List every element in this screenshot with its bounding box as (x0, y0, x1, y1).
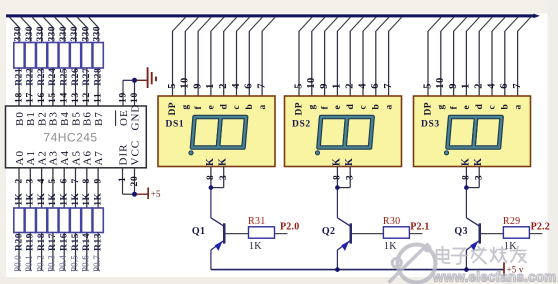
svg-text:K: K (460, 158, 471, 166)
resistor R31 1K (248, 216, 275, 252)
svg-text:P0.3: P0.3 (47, 255, 57, 272)
wire: bus stub to R28 (89, 17, 99, 43)
svg-text:DS3: DS3 (421, 120, 440, 130)
wire: bus to DS2 pin 9 (f) (319, 17, 338, 96)
svg-text:K: K (331, 158, 342, 166)
svg-text:K: K (344, 158, 355, 166)
svg-text:1: 1 (332, 83, 343, 89)
resistor R29 1K (503, 216, 530, 252)
wire+net P0.2 (35, 233, 45, 273)
wire: R26 to U1 pin 13 (71, 68, 81, 107)
wire: collector of Q3 (465, 188, 467, 218)
svg-text:DIR: DIR (117, 144, 129, 166)
svg-text:c: c (232, 105, 242, 110)
wire: bus to DS3 pin 9 (f) (448, 17, 467, 96)
svg-text:b: b (501, 104, 511, 110)
svg-text:11: 11 (93, 92, 103, 103)
svg-text:g: g (181, 104, 191, 109)
svg-text:1K: 1K (26, 193, 36, 206)
7-segment display DS3 (414, 96, 531, 167)
svg-text:18: 18 (14, 92, 24, 103)
wire: U1 pin 20 (VCC) down (130, 168, 140, 194)
wire: R28 to U1 pin 11 (93, 68, 103, 107)
node: Q3 emitter on rail (464, 267, 469, 272)
svg-text:e: e (462, 105, 472, 110)
wire: bus to DS3 pin 7 (a) (512, 17, 531, 96)
wire: DS1 pin 8 (K) (206, 167, 216, 188)
resistor R22 330 (25, 26, 36, 86)
svg-text:P0.4: P0.4 (58, 255, 68, 272)
svg-text:330: 330 (14, 26, 24, 41)
svg-text:P0.0: P0.0 (13, 255, 23, 272)
svg-text:4: 4 (231, 83, 242, 89)
svg-text:4: 4 (486, 83, 497, 89)
svg-text:2: 2 (14, 178, 24, 184)
transistor Q1 (192, 218, 226, 251)
svg-text:d: d (346, 104, 356, 110)
svg-text:a: a (384, 104, 394, 109)
resistor R28 330 (93, 26, 104, 86)
wire+net P2.2 (529, 222, 550, 234)
resistor R13 1K (93, 193, 104, 251)
svg-text:14: 14 (60, 92, 70, 103)
svg-text:1K: 1K (60, 193, 70, 206)
wire: R22 to U1 pin 17 (26, 68, 36, 107)
svg-text:K: K (205, 158, 216, 166)
svg-text:A2: A2 (36, 150, 48, 165)
node: cathode junction DS1 (209, 185, 214, 190)
wire: base of Q3 to R29 (481, 233, 503, 235)
wire+net P0.4 (58, 233, 68, 273)
wire: bus to DS1 pin 10 (g) (180, 17, 199, 96)
wire: U1 pin 9 to R13 (93, 168, 103, 208)
svg-text:B4: B4 (59, 111, 71, 126)
svg-text:b: b (245, 104, 255, 110)
svg-text:10: 10 (306, 77, 317, 89)
svg-text:R29: R29 (503, 216, 521, 227)
svg-text:5: 5 (422, 83, 433, 89)
wire: U1 pin 2 to R20 (14, 168, 24, 208)
wire+net P0.5 (69, 233, 79, 273)
svg-text:OE: OE (118, 109, 130, 126)
transistor Q2 (322, 218, 352, 251)
svg-text:330: 330 (36, 26, 46, 41)
wire: U1 pin 10 (GND) up (130, 80, 140, 106)
svg-text:e: e (333, 105, 343, 110)
svg-text:6: 6 (60, 178, 70, 184)
node: cathode junction DS2 (335, 185, 340, 190)
svg-text:10: 10 (180, 77, 191, 89)
wire: bus to DS1 pin 6 (b) (244, 17, 263, 96)
svg-text:3: 3 (26, 178, 36, 184)
resistor R21 330 (14, 26, 25, 86)
wire: U1 pin 5 to R17 (48, 168, 58, 208)
wire: bus to DS3 pin 1 (e) (461, 17, 480, 96)
wire: DS3 pin 3 (K) (466, 167, 484, 188)
resistor R26 330 (70, 26, 81, 86)
wire: U1 pin 4 to R18 (37, 168, 47, 208)
svg-text:f: f (194, 106, 204, 110)
svg-text:A4: A4 (59, 150, 71, 165)
svg-text:1K: 1K (82, 193, 92, 206)
ground symbol (148, 67, 156, 88)
wire: bus stub to R23 (32, 17, 42, 43)
svg-text:19: 19 (118, 92, 128, 103)
wire: bus to DS1 pin 2 (d) (218, 17, 237, 96)
svg-text:e: e (207, 105, 217, 110)
svg-text:A1: A1 (25, 150, 37, 165)
wire: DS2 pin 8 (K) (333, 167, 343, 188)
svg-text:b: b (372, 104, 382, 110)
svg-text:6: 6 (244, 83, 255, 89)
svg-text:5: 5 (48, 178, 58, 184)
wire: emitter of Q2 down (336, 250, 338, 270)
wire: bus to DS1 pin 4 (c) (231, 17, 250, 96)
wire: main data bus across top (6, 14, 540, 19)
svg-text:9: 9 (319, 83, 330, 89)
svg-text:8: 8 (82, 178, 92, 184)
wire+net P0.7 (92, 233, 102, 273)
wire: DS1 pin 3 (K) (211, 167, 229, 188)
svg-text:d: d (475, 104, 485, 110)
svg-text:330: 330 (70, 26, 80, 41)
wire: R27 to U1 pin 12 (82, 68, 92, 107)
wire: bus to DS3 pin 2 (d) (474, 17, 493, 96)
svg-text:A7: A7 (93, 150, 105, 165)
svg-text:A5: A5 (70, 150, 82, 165)
svg-text:VCC: VCC (129, 140, 141, 166)
watermark logo and text (389, 244, 557, 284)
transistor Q3 (454, 218, 481, 251)
svg-text:B0: B0 (14, 111, 26, 126)
svg-text:a: a (513, 104, 523, 109)
svg-text:330: 330 (25, 26, 35, 41)
wire: bus stub to R22 (21, 17, 31, 43)
svg-text:B7: B7 (93, 111, 105, 126)
wire: DS2 pin 3 (K) (337, 167, 355, 188)
svg-text:DS2: DS2 (292, 120, 311, 130)
svg-text:12: 12 (82, 92, 92, 103)
svg-text:9: 9 (448, 83, 459, 89)
svg-text:1K: 1K (71, 193, 81, 206)
wire: bus to DS2 pin 10 (g) (306, 17, 325, 96)
resistor R15 1K (70, 193, 81, 251)
svg-text:f: f (320, 106, 330, 110)
svg-text:K: K (473, 158, 484, 166)
svg-text:A6: A6 (82, 150, 94, 165)
svg-text:B5: B5 (70, 111, 82, 126)
resistor R20 1K (14, 193, 24, 251)
svg-text:330: 330 (59, 26, 69, 41)
svg-text:P0.1: P0.1 (24, 255, 34, 272)
svg-text:Q2: Q2 (322, 226, 335, 237)
svg-text:8: 8 (333, 175, 343, 180)
svg-text:7: 7 (512, 83, 523, 89)
wire: bus to DS1 pin 9 (f) (192, 17, 211, 96)
svg-text:Q3: Q3 (454, 226, 467, 237)
wire: bus to DS2 pin 2 (d) (345, 17, 364, 96)
svg-text:16: 16 (37, 92, 47, 103)
svg-text:B1: B1 (25, 111, 37, 126)
wire+net P0.6 (81, 233, 91, 273)
wire: bus stub to R25 (55, 17, 64, 43)
svg-text:f: f (449, 106, 459, 110)
node: junction at VCC pin (132, 192, 137, 197)
svg-text:2: 2 (474, 83, 485, 89)
svg-text:1K: 1K (249, 241, 262, 252)
wire: bus to DS3 pin 5 (DP) (422, 17, 441, 96)
svg-text:Q1: Q1 (192, 226, 205, 237)
svg-text:P2.2: P2.2 (531, 222, 550, 233)
wire: U1 pin 19 (OE) up (118, 80, 128, 106)
wire: bus to DS2 pin 5 (DP) (293, 17, 312, 96)
svg-text:g: g (437, 104, 447, 109)
wire: bus stub to R26 (66, 17, 76, 43)
svg-text:9: 9 (192, 83, 203, 89)
node: cathode junction DS3 (464, 185, 469, 190)
svg-text:1K: 1K (14, 193, 24, 206)
wire: emitter of Q3 down (465, 250, 467, 270)
wire: bus stub to R27 (77, 17, 87, 43)
svg-text:A3: A3 (48, 150, 60, 165)
svg-text:7: 7 (71, 178, 81, 184)
svg-text:330: 330 (81, 26, 91, 41)
wire: link pins 19-10 to ground (123, 79, 148, 81)
svg-text:d: d (219, 104, 229, 110)
svg-text:1K: 1K (93, 193, 103, 206)
svg-text:DP: DP (168, 102, 178, 115)
svg-text:8: 8 (462, 175, 472, 180)
wire: common emitter rail (211, 269, 504, 271)
node: Q2 emitter on rail (335, 267, 340, 272)
svg-text:1K: 1K (37, 193, 47, 206)
wire+net P0.0 (13, 233, 23, 273)
svg-text:6: 6 (499, 83, 510, 89)
resistor R18 1K (36, 193, 47, 251)
svg-text:DP: DP (295, 102, 305, 115)
wire+net P0.3 (47, 233, 57, 273)
power +5v symbol (504, 262, 524, 276)
svg-text:B6: B6 (82, 111, 94, 126)
svg-text:8: 8 (206, 175, 216, 180)
svg-text:7: 7 (383, 83, 394, 89)
svg-text:20: 20 (130, 175, 140, 186)
IC U1 74HC245 (6, 104, 147, 168)
wire: DS3 pin 8 (K) (462, 167, 472, 188)
wire: U1 pin 1 (DIR) down (118, 168, 128, 194)
svg-text:4: 4 (37, 178, 47, 184)
svg-text:DS1: DS1 (166, 120, 185, 130)
svg-text:1: 1 (461, 83, 472, 89)
wire: collector of Q1 (210, 188, 212, 218)
svg-text:2: 2 (345, 83, 356, 89)
svg-text:DP: DP (424, 102, 434, 115)
wire: bus to DS1 pin 1 (e) (205, 17, 224, 96)
wire: base of Q1 to R31 (226, 233, 249, 235)
wire: bus stub to R24 (43, 17, 53, 43)
wire: bus to DS3 pin 4 (c) (486, 17, 505, 96)
svg-text:c: c (488, 105, 498, 110)
svg-text:1: 1 (205, 83, 216, 89)
svg-text:1: 1 (118, 176, 128, 182)
7-segment display DS2 (285, 96, 402, 167)
svg-text:330: 330 (48, 26, 58, 41)
wire+net P0.1 (24, 233, 34, 273)
resistor R25 330 (59, 26, 70, 86)
wire: collector of Q2 (336, 188, 338, 218)
wire: U1 pin 6 to R16 (60, 168, 70, 208)
svg-text:13: 13 (71, 92, 81, 103)
svg-text:www.elecfans.com: www.elecfans.com (432, 270, 557, 284)
svg-text:3: 3 (475, 175, 485, 180)
wire: R24 to U1 pin 15 (48, 68, 58, 107)
wire: bus to DS3 pin 10 (g) (435, 17, 454, 96)
svg-text:74HC245: 74HC245 (43, 131, 97, 145)
svg-text:K: K (218, 158, 229, 166)
wire: R25 to U1 pin 14 (60, 68, 70, 107)
resistor R14 1K (82, 193, 93, 251)
svg-text:P0.5: P0.5 (69, 255, 79, 272)
resistor R23 330 (36, 26, 47, 86)
svg-text:330: 330 (93, 26, 103, 41)
wire: R23 to U1 pin 16 (37, 68, 47, 107)
svg-text:B3: B3 (48, 111, 60, 126)
7-segment display DS1 (158, 96, 275, 167)
resistor R19 1K (25, 193, 35, 251)
svg-text:5: 5 (167, 83, 178, 89)
svg-text:4: 4 (357, 83, 368, 89)
svg-text:P2.0: P2.0 (280, 222, 299, 233)
wire: U1 pin 8 to R14 (82, 168, 92, 208)
svg-text:7: 7 (256, 83, 267, 89)
resistor R17 1K (48, 193, 59, 251)
wire: bus to DS1 pin 7 (a) (256, 17, 275, 96)
wire+net P2.0 (275, 222, 300, 234)
svg-text:6: 6 (370, 83, 381, 89)
wire: R21 to U1 pin 18 (14, 68, 24, 107)
wire: link pin1-pin20 to +5 (123, 193, 149, 195)
svg-text:g: g (308, 104, 318, 109)
svg-text:P2.1: P2.1 (410, 222, 429, 233)
svg-text:B2: B2 (36, 111, 48, 126)
resistor R27 330 (81, 26, 92, 86)
wire: U1 pin 3 to R19 (26, 168, 36, 208)
svg-text:17: 17 (26, 92, 36, 103)
svg-text:10: 10 (130, 92, 140, 103)
svg-text:P0.7: P0.7 (92, 255, 102, 272)
svg-text:P0.6: P0.6 (81, 255, 91, 272)
wire: bus to DS2 pin 7 (a) (383, 17, 402, 96)
svg-text:1K: 1K (384, 241, 397, 252)
svg-text:9: 9 (93, 178, 103, 184)
wire: bus to DS2 pin 1 (e) (332, 17, 351, 96)
svg-text:2: 2 (218, 83, 229, 89)
wire: emitter of Q1 down (210, 250, 212, 270)
resistor R30 1K (383, 216, 410, 252)
svg-text:3: 3 (346, 175, 356, 180)
svg-text:15: 15 (48, 92, 58, 103)
resistor R16 1K (59, 193, 70, 251)
wire: bus to DS1 pin 5 (DP) (167, 17, 186, 96)
node: junction at GND pin (132, 78, 137, 83)
wire: U1 pin 7 to R15 (71, 168, 81, 208)
svg-text:R30: R30 (383, 216, 401, 227)
wire+net P2.1 (409, 222, 429, 234)
svg-text:5: 5 (293, 83, 304, 89)
svg-text:P0.2: P0.2 (35, 255, 45, 272)
svg-text:+5: +5 (151, 189, 161, 199)
svg-text:c: c (359, 105, 369, 110)
svg-text:10: 10 (435, 77, 446, 89)
wire: base of Q2 to R30 (352, 233, 383, 235)
power +5 symbol (148, 188, 161, 200)
svg-text:R31: R31 (248, 216, 266, 227)
svg-text:a: a (258, 104, 268, 109)
wire: bus to DS2 pin 6 (b) (370, 17, 389, 96)
resistor R24 330 (48, 26, 59, 86)
wire: bus to DS2 pin 4 (c) (357, 17, 376, 96)
wire: bus to DS3 pin 6 (b) (499, 17, 518, 96)
svg-text:3: 3 (219, 175, 229, 180)
svg-text:A0: A0 (14, 150, 26, 165)
wire: bus stub to R21 (10, 17, 20, 43)
svg-text:1K: 1K (48, 193, 58, 206)
svg-text:GND: GND (129, 104, 141, 131)
